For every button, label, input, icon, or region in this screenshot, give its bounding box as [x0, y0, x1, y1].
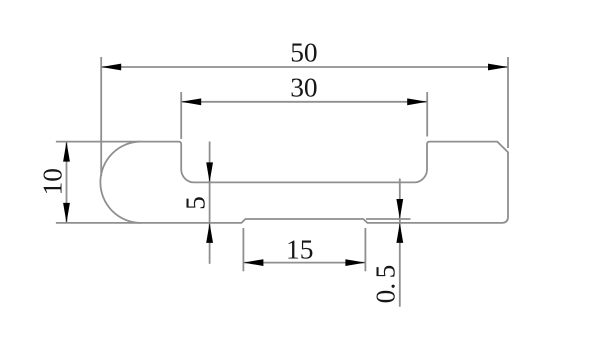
arrow 30 left — [181, 98, 201, 105]
dim 15 extension right — [364, 228, 366, 271]
dim 10 line — [66, 142, 68, 223]
dim 0.5 line — [399, 179, 401, 307]
arrow 5 lower (points up) — [206, 223, 213, 243]
dim 30 line — [181, 101, 427, 103]
svg-text:15: 15 — [286, 234, 313, 264]
svg-text:30: 30 — [290, 72, 317, 102]
arrow 0.5 upper (points down) — [396, 199, 403, 219]
arrow 0.5 lower (points up) — [396, 223, 403, 243]
arrow 50 left — [101, 64, 121, 71]
dim 10 extension line bottom — [56, 222, 141, 224]
svg-text:5: 5 — [180, 196, 210, 210]
svg-text:10: 10 — [38, 168, 68, 195]
dim 15 line — [243, 262, 365, 264]
dim 50 extension left — [100, 57, 102, 176]
arrow 30 right — [407, 98, 427, 105]
svg-text:50: 50 — [290, 38, 317, 68]
dim 50 line — [101, 66, 508, 68]
arrow 15 right — [345, 259, 365, 266]
svg-text:0.5: 0.5 — [371, 265, 401, 304]
arrow 5 upper (points down) — [206, 162, 213, 182]
dim 10 extension line top — [56, 141, 141, 143]
part outline — [100, 142, 508, 223]
arrow 10 top — [63, 142, 70, 162]
dim 30 extension left — [180, 92, 182, 139]
arrow 50 right — [488, 64, 508, 71]
arrow 15 left — [243, 259, 263, 266]
dim 30 extension right — [426, 92, 428, 137]
dim 5 line — [209, 142, 211, 264]
dim 0.5 extension (groove floor level) — [366, 218, 411, 220]
dim 15 extension left — [242, 228, 244, 271]
dim 50 extension right — [507, 57, 509, 148]
arrow 10 bottom — [63, 203, 70, 223]
